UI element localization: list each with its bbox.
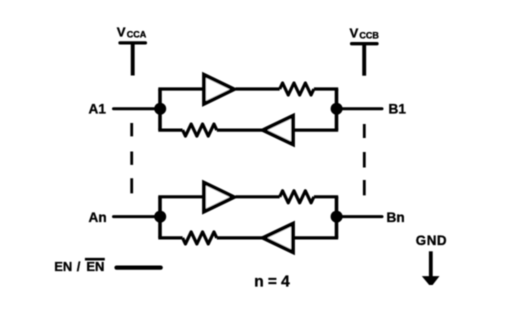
svg-text:EN: EN (54, 259, 72, 274)
svg-text:CCB: CCB (359, 30, 379, 40)
svg-text:Bn: Bn (387, 210, 405, 225)
svg-text:A1: A1 (89, 102, 107, 117)
svg-text:/: / (77, 259, 81, 274)
svg-text:CCA: CCA (127, 30, 147, 40)
svg-text:V: V (117, 24, 126, 39)
svg-text:EN: EN (86, 259, 104, 274)
svg-text:B1: B1 (389, 102, 407, 117)
svg-text:An: An (89, 210, 107, 225)
svg-text:GND: GND (416, 233, 447, 248)
svg-text:V: V (350, 25, 359, 40)
svg-text:n = 4: n = 4 (254, 273, 290, 290)
